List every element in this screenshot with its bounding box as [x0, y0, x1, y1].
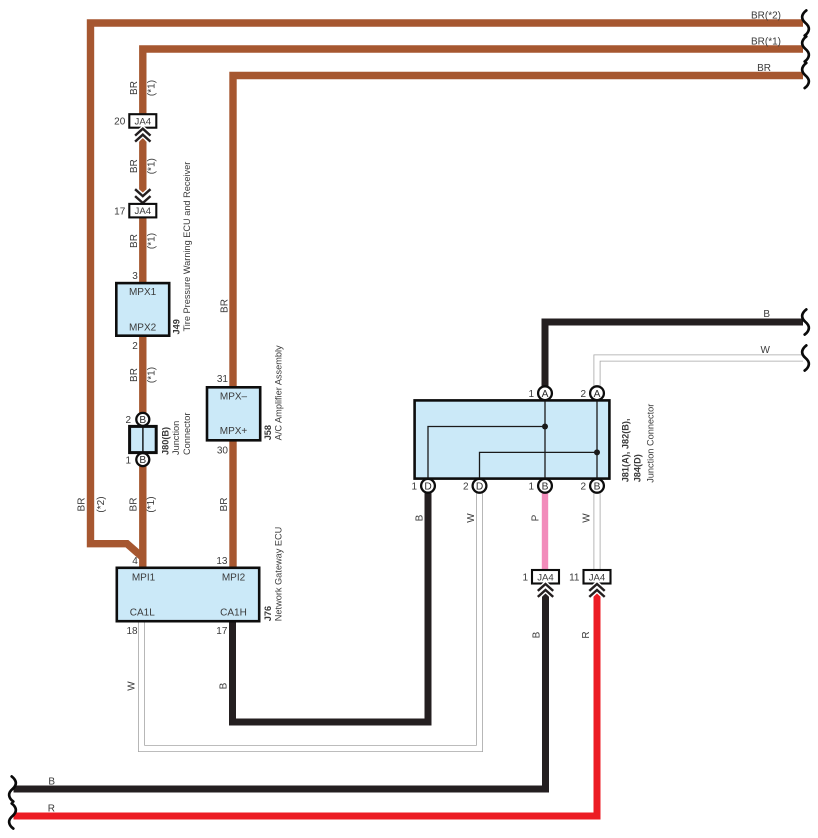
- svg-text:B: B: [139, 415, 146, 426]
- svg-text:4: 4: [132, 556, 138, 567]
- svg-text:20: 20: [114, 117, 126, 128]
- svg-text:13: 13: [216, 556, 228, 567]
- svg-text:11: 11: [569, 572, 580, 583]
- svg-text:(*1): (*1): [146, 367, 157, 383]
- svg-text:BR: BR: [757, 63, 771, 74]
- svg-text:B: B: [48, 777, 55, 788]
- svg-text:BR: BR: [129, 159, 140, 173]
- svg-text:J80(B): J80(B): [160, 427, 170, 455]
- svg-text:A: A: [594, 389, 601, 400]
- svg-text:2: 2: [580, 389, 586, 400]
- svg-text:1: 1: [522, 572, 528, 583]
- svg-text:1: 1: [528, 389, 534, 400]
- svg-text:B: B: [594, 481, 601, 492]
- svg-text:BR: BR: [129, 81, 140, 95]
- svg-text:1: 1: [411, 482, 417, 493]
- svg-text:B: B: [542, 481, 549, 492]
- svg-text:BR: BR: [128, 498, 139, 512]
- svg-text:CA1H: CA1H: [220, 608, 247, 619]
- svg-text:(*1): (*1): [146, 233, 157, 249]
- svg-text:(*1): (*1): [146, 158, 157, 174]
- svg-text:D: D: [424, 481, 431, 492]
- svg-text:CA1L: CA1L: [130, 608, 155, 619]
- svg-text:D: D: [476, 481, 483, 492]
- svg-text:(*1): (*1): [146, 496, 157, 512]
- svg-text:BR: BR: [220, 299, 231, 313]
- svg-text:W: W: [466, 513, 477, 523]
- svg-text:J58: J58: [263, 425, 273, 440]
- svg-text:BR: BR: [219, 498, 230, 512]
- svg-text:BR: BR: [129, 368, 140, 382]
- svg-text:Connector: Connector: [182, 413, 192, 455]
- svg-text:2: 2: [125, 415, 131, 426]
- svg-text:1: 1: [528, 482, 534, 493]
- svg-text:B: B: [763, 309, 770, 320]
- svg-text:31: 31: [217, 374, 229, 385]
- svg-text:A: A: [542, 389, 549, 400]
- svg-text:BR(*1): BR(*1): [751, 36, 781, 47]
- svg-text:B: B: [415, 514, 426, 521]
- svg-text:B: B: [139, 455, 146, 466]
- svg-text:3: 3: [132, 271, 138, 282]
- svg-text:30: 30: [217, 445, 229, 456]
- svg-text:W: W: [127, 681, 138, 691]
- svg-text:BR(*2): BR(*2): [751, 10, 781, 21]
- svg-text:(*2): (*2): [96, 496, 107, 512]
- svg-text:A/C Amplifier Assembly: A/C Amplifier Assembly: [274, 345, 284, 440]
- svg-text:Junction: Junction: [171, 421, 181, 455]
- svg-text:B: B: [532, 631, 543, 638]
- svg-text:MPI2: MPI2: [222, 573, 246, 584]
- svg-text:MPX2: MPX2: [129, 322, 157, 333]
- svg-text:J49: J49: [171, 319, 181, 334]
- svg-text:17: 17: [216, 626, 228, 637]
- svg-text:Tire Pressure Warning ECU and: Tire Pressure Warning ECU and Receiver: [182, 162, 192, 332]
- svg-text:J81(A), J82(B),: J81(A), J82(B),: [620, 418, 630, 482]
- svg-text:MPX1: MPX1: [129, 287, 157, 298]
- svg-text:B: B: [219, 682, 230, 689]
- svg-text:17: 17: [114, 206, 126, 217]
- svg-text:W: W: [761, 345, 771, 356]
- svg-text:W: W: [582, 513, 593, 523]
- svg-text:Junction Connector: Junction Connector: [645, 404, 655, 483]
- svg-text:J76: J76: [263, 606, 273, 621]
- svg-text:MPX+: MPX+: [220, 426, 248, 437]
- svg-text:Network Gateway ECU: Network Gateway ECU: [274, 527, 284, 621]
- svg-text:R: R: [581, 631, 592, 638]
- svg-text:J84(D): J84(D): [632, 454, 642, 482]
- svg-text:MPI1: MPI1: [132, 573, 156, 584]
- svg-text:1: 1: [125, 455, 131, 466]
- svg-text:(*1): (*1): [146, 80, 157, 96]
- svg-text:2: 2: [580, 482, 586, 493]
- svg-text:BR: BR: [76, 498, 87, 512]
- svg-text:R: R: [48, 804, 55, 815]
- svg-text:2: 2: [132, 341, 138, 352]
- svg-text:2: 2: [463, 482, 469, 493]
- svg-text:MPX–: MPX–: [220, 392, 248, 403]
- svg-text:18: 18: [126, 626, 138, 637]
- svg-text:P: P: [531, 514, 542, 521]
- svg-text:BR: BR: [129, 234, 140, 248]
- svg-text:JA4: JA4: [135, 206, 152, 217]
